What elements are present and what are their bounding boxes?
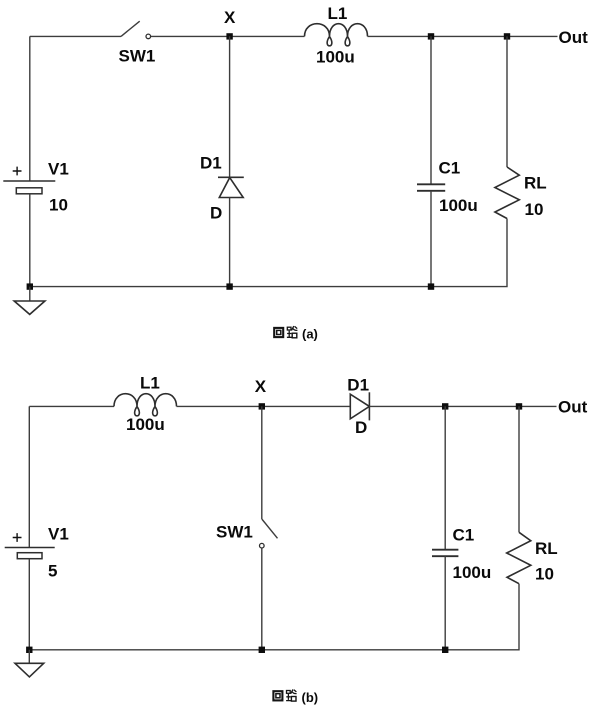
svg-text:V1: V1 [48, 160, 69, 179]
resistor RL (b) [507, 532, 531, 583]
wire: C1 branch top [430, 36, 432, 184]
inductor L1 (b) [114, 394, 177, 416]
junction: bottom rail at switch (b) [259, 647, 265, 653]
svg-text:D1: D1 [200, 154, 222, 173]
svg-text:V1: V1 [48, 525, 69, 544]
wire: SW1 to node X [151, 35, 305, 37]
wire: node X down to switch SW1 (b) [261, 406, 263, 519]
wire: top rail left segment (battery to SW1) [30, 35, 121, 37]
svg-text:D1: D1 [347, 376, 369, 395]
caption 回路(b) [273, 689, 318, 705]
svg-text:D: D [355, 418, 367, 437]
junction: bottom rail at ground [27, 283, 33, 289]
capacitor C1 [417, 184, 445, 191]
caption 回路(a) [274, 326, 318, 342]
wire: junction to ground (a) [29, 287, 31, 301]
junction: top rail at RL [504, 33, 510, 39]
wire: diode to Out [369, 405, 556, 407]
wire: left rail (top rail down to battery V1) [29, 36, 31, 181]
wire: L1 to Out [368, 35, 558, 37]
svg-text:5: 5 [48, 562, 57, 581]
svg-text:100u: 100u [439, 196, 478, 215]
svg-text:100u: 100u [126, 415, 165, 434]
capacitor C1 (b) [432, 550, 458, 557]
svg-text:SW1: SW1 [119, 47, 156, 66]
svg-text:Out: Out [559, 28, 589, 47]
wire: left rail (top rail down to battery V1) [28, 406, 30, 547]
battery V1 (b) [5, 548, 55, 559]
junction: top rail at RL (b) [516, 403, 522, 409]
ground (a) [14, 301, 45, 314]
svg-text:C1: C1 [453, 526, 475, 545]
diode D1 (b) (triangle + cathode bar) [350, 392, 369, 420]
svg-text:10: 10 [535, 565, 554, 584]
wire: node X down to diode D1 [229, 36, 231, 177]
wire: C1 to bottom rail [430, 191, 432, 287]
wire: RL branch top [506, 36, 508, 167]
switch SW1 (b) (open blade + contact) [260, 519, 278, 548]
wire: RL to bottom rail corner [30, 219, 507, 287]
node X junction (b) [259, 403, 265, 409]
wire: battery V1 to bottom rail (b) [28, 559, 30, 650]
junction: bottom rail at C1 [428, 283, 434, 289]
svg-text:L1: L1 [140, 374, 160, 393]
junction: bottom rail at ground (b) [26, 647, 32, 653]
resistor RL [495, 167, 519, 219]
wire: switch to bottom rail [261, 548, 263, 650]
svg-text:(a): (a) [302, 327, 318, 342]
diode D1 (cathode bar + triangle) [218, 177, 244, 197]
svg-text:100u: 100u [316, 48, 355, 67]
svg-text:RL: RL [524, 174, 547, 193]
wire: diode D1 to bottom rail [229, 198, 231, 287]
battery V1 [3, 181, 55, 194]
svg-text:X: X [224, 8, 236, 27]
inductor L1 [305, 24, 368, 46]
svg-text:10: 10 [49, 196, 68, 215]
switch SW1 (open blade + contact) [121, 21, 151, 39]
node X junction [226, 33, 232, 39]
wire: RL to bottom rail corner (b) [29, 584, 519, 650]
plus sign of V1 [13, 167, 22, 176]
wire: L1 to diode D1 (through node X) [177, 405, 351, 407]
svg-text:C1: C1 [439, 159, 461, 178]
junction: top rail at C1 (b) [442, 403, 448, 409]
wire: battery V1 to bottom rail [29, 194, 31, 287]
plus sign of V1 (b) [13, 533, 22, 542]
wire: top rail left segment (battery to L1) [29, 405, 114, 407]
svg-text:L1: L1 [328, 4, 348, 23]
ground (b) [15, 663, 44, 677]
wire: junction to ground (b) [28, 650, 30, 664]
wire: C1 branch top (b) [444, 406, 446, 549]
wire: C1 to bottom rail (b) [444, 556, 446, 650]
svg-text:RL: RL [535, 539, 558, 558]
svg-text:X: X [255, 377, 267, 396]
svg-text:Out: Out [558, 398, 588, 417]
junction: bottom rail at diode [226, 283, 232, 289]
junction: top rail at C1 [428, 33, 434, 39]
svg-text:10: 10 [525, 200, 544, 219]
svg-text:(b): (b) [302, 690, 319, 705]
svg-text:100u: 100u [453, 563, 492, 582]
wire: RL branch top (b) [518, 406, 520, 532]
svg-text:SW1: SW1 [216, 523, 253, 542]
svg-text:D: D [210, 204, 222, 223]
junction: bottom rail at C1 (b) [442, 647, 448, 653]
